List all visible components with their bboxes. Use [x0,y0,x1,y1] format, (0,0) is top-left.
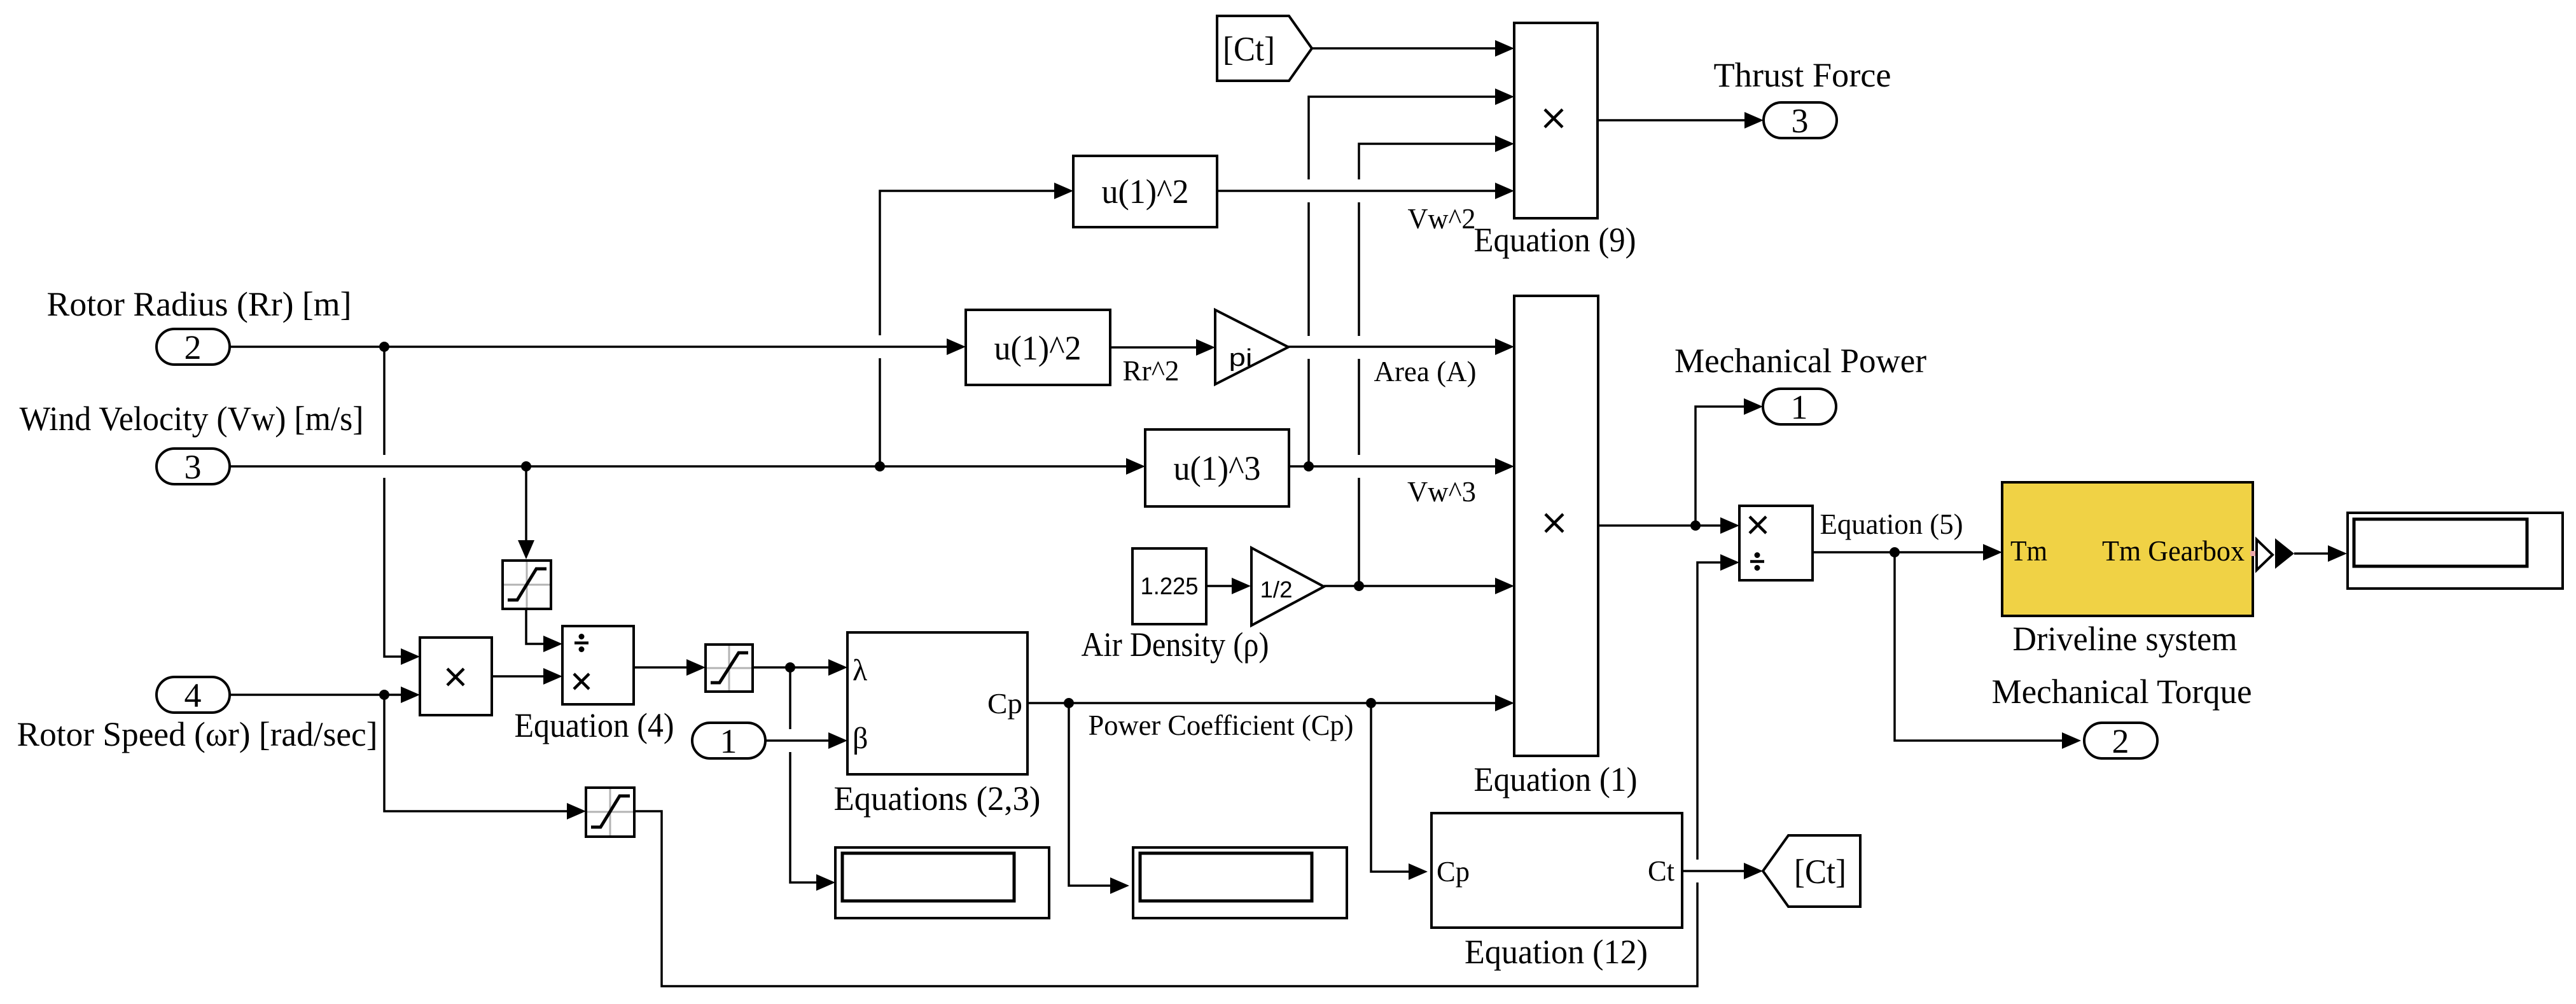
wire Equation1 to product-divide [1598,517,1739,534]
outport 1 Mechanical Power [1763,388,1836,426]
svg-text:3: 3 [184,448,202,486]
svg-text:Area (A): Area (A) [1374,356,1477,387]
wire Cp branch down to display2 [1069,703,1129,894]
svg-text:pi: pi [1229,345,1253,372]
node Rotor Speed junction [379,690,389,700]
wire lambda branch down to display1 (gap at beta crossing) [790,667,835,891]
display block gearbox torque [2348,513,2563,589]
wire branch up to outport1 [1695,398,1763,526]
block product (omega*Rr) [420,638,492,715]
outport 2 Mechanical Torque [2084,722,2157,760]
svg-text:Equations (2,3): Equations (2,3) [834,779,1041,818]
svg-text:Driveline system: Driveline system [2013,620,2238,658]
wire Rotor Speed: port4 to product in2 [230,687,420,703]
node Rr branch junction [379,342,389,352]
svg-text:[Ct]: [Ct] [1794,853,1846,891]
from tag [Ct] [1763,835,1860,907]
node torque junction [1890,547,1900,557]
node Cp junction Equation12 [1366,698,1376,708]
node lambda junction [785,662,795,673]
product block Equation (9) [1514,23,1598,218]
svg-text:Air Density (ρ): Air Density (ρ) [1082,625,1269,664]
display block 1 [835,847,1049,918]
svg-text:λ: λ [853,653,868,687]
saturation block 1 [503,561,551,609]
svg-text:Thrust Force: Thrust Force [1714,56,1891,94]
node rho/2 junction [1354,581,1364,591]
svg-text:Tm Gearbox: Tm Gearbox [2102,535,2245,567]
wire Equation9 to outport3 [1598,112,1764,129]
svg-text:Mechanical Power: Mechanical Power [1674,342,1926,380]
wire saturation3 to lambda input [753,659,847,676]
wire branch down to outport2 [1895,552,2081,749]
svg-text:Rotor Speed (ωr) [rad/sec]: Rotor Speed (ωr) [rad/sec] [17,715,378,753]
svg-text:1/2: 1/2 [1260,576,1293,603]
wire Vw branch up to u(1)^2 top (gap at Rr crossing) [880,183,1073,466]
wire divide to saturation3 [634,659,706,676]
constant port 1 (beta) [692,722,765,760]
svg-text:u(1)^3: u(1)^3 [1174,449,1261,487]
block u(1)^2 top (Fcn Vw^2) [1073,156,1217,227]
svg-text:1: 1 [1791,388,1808,426]
svg-text:1: 1 [720,722,737,760]
goto tag [Ct] [1217,16,1312,81]
block divide (Equation 4) [562,626,634,704]
wire Rr branch down to product input1 (gap at Vw crossing) [384,347,420,665]
wire Ct to from-tag [1682,863,1763,879]
svg-text:Rr^2: Rr^2 [1123,355,1180,387]
outport 3 Thrust Force [1764,102,1837,140]
svg-text:2: 2 [2112,722,2129,760]
svg-text:Equation (9): Equation (9) [1474,221,1636,259]
wire Vw branch down to saturation1 [518,466,534,559]
saturation block 3 [706,645,753,692]
product-divide block (Equation 5) [1739,506,1813,580]
node Vw junction A [521,461,531,471]
svg-text:Rotor Radius (Rr) [m]: Rotor Radius (Rr) [m] [47,285,352,323]
wire Cp: Equations(2,3) to Equation1 in4 [1027,695,1514,711]
svg-text:3: 3 [1792,102,1809,140]
svg-text:Equation (5): Equation (5) [1820,508,1963,540]
wire u(1)^3 to Equation1 in2 [1289,458,1514,475]
svg-text:2: 2 [184,328,202,366]
wire pi to Equation1 in1 (Area) [1288,338,1514,355]
wire u(1)^2 top to Equation9 in4 [1217,183,1514,199]
svg-text:Tm: Tm [2010,535,2047,567]
node Vw junction B [875,461,885,471]
wire rho/2 branch up to Equation9 in3 (gaps at y733 y545 y300) [1359,136,1514,586]
inport 2 Rotor Radius [157,328,230,366]
svg-text:Cp: Cp [987,688,1022,720]
wire saturation1 to divide input1 [526,609,562,652]
node mechanical power junction [1690,520,1701,531]
svg-text:Vw^3: Vw^3 [1407,476,1476,508]
subsystem Driveline system [2002,482,2255,616]
svg-text:Equation (1): Equation (1) [1474,760,1638,798]
svg-text:u(1)^2: u(1)^2 [1102,172,1189,211]
block u(1)^2 mid (Fcn Rr^2) [966,310,1110,385]
subsystem Equation (12) [1431,813,1682,928]
svg-text:1.225: 1.225 [1141,573,1199,600]
svg-text:4: 4 [184,676,202,715]
wire Rotor Speed branch down to saturation2 [384,695,586,819]
wire 1.225 to gain 1/2 [1206,578,1251,594]
wire Driveline output to scope display [2257,538,2347,570]
display block 2 [1133,847,1347,918]
block u(1)^3 (Fcn Vw^3) [1145,429,1289,506]
svg-text:Equation (4): Equation (4) [515,706,674,744]
svg-text:Power Coefficient (Cp): Power Coefficient (Cp) [1089,709,1354,741]
wire saturation2 along bottom to divide-by-omega input (gap at Ct crossing) [634,554,1739,986]
wire u(1)^2 mid to pi gain [1110,339,1215,356]
wire gain 1/2 to Equation1 in3 [1324,578,1514,594]
wire product to divide in2 [492,668,562,685]
svg-text:β: β [853,722,868,755]
svg-text:Ct: Ct [1648,855,1674,887]
wire Equation5 to Driveline Tm [1813,544,2002,561]
saturation block 2 [586,788,634,837]
inport 3 Wind Velocity [157,448,230,486]
wire goto Ct to Equation9 in1 [1312,40,1514,57]
svg-text:Mechanical Torque: Mechanical Torque [1992,673,2252,711]
inport 4 Rotor Speed [157,676,230,715]
gain pi [1215,310,1288,384]
node u(1)^3 output junction [1304,461,1314,471]
svg-text:Wind Velocity (Vw) [m/s]: Wind Velocity (Vw) [m/s] [20,400,364,438]
svg-text:Equation (12): Equation (12) [1465,933,1648,971]
svg-text:Cp: Cp [1437,856,1470,888]
node Cp junction display2 [1064,698,1074,708]
svg-text:Vw^2: Vw^2 [1408,203,1476,235]
svg-text:[Ct]: [Ct] [1223,30,1275,68]
subsystem Equations (2,3) [847,632,1027,774]
wire Vw^3 branch up to Equation9 in2 (gaps at y545 y300) [1309,88,1514,466]
wire constant1 to beta input [765,732,847,749]
constant 1.225 [1132,548,1206,624]
svg-text:u(1)^2: u(1)^2 [994,329,1082,367]
gain 1/2 [1251,548,1324,625]
wire Cp branch down to Equation12 [1371,703,1428,880]
wire Vw: port3 to u(1)^3 [230,458,1145,475]
product block Equation (1) [1514,296,1598,756]
wire Rr: port2 to u(1)^2 [230,338,966,355]
